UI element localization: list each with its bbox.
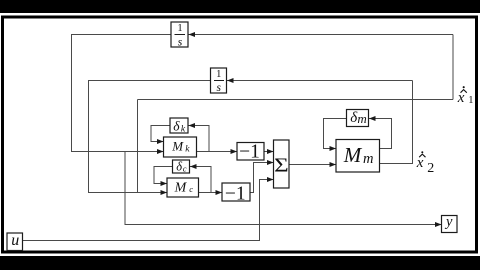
svg-text:c: c — [183, 163, 187, 173]
svg-text:−1: −1 — [225, 183, 246, 204]
svg-text:m: m — [363, 151, 373, 167]
svg-text:M: M — [343, 143, 363, 167]
svg-text:M: M — [171, 138, 184, 153]
svg-text:δ: δ — [176, 159, 182, 173]
svg-text:s: s — [216, 82, 221, 94]
svg-text:s: s — [178, 36, 183, 48]
svg-text:m: m — [357, 111, 366, 126]
svg-text:M: M — [174, 180, 188, 195]
svg-text:δ: δ — [173, 118, 180, 133]
svg-text:−1: −1 — [239, 141, 260, 162]
svg-text:u: u — [11, 232, 19, 249]
svg-text:1: 1 — [216, 69, 221, 80]
svg-text:y: y — [444, 214, 453, 230]
svg-text:1: 1 — [468, 95, 473, 106]
svg-text:c: c — [189, 184, 193, 194]
svg-text:1: 1 — [177, 23, 182, 34]
svg-text:x: x — [416, 155, 424, 171]
svg-text:2: 2 — [427, 161, 434, 176]
svg-text:Σ: Σ — [274, 154, 289, 176]
